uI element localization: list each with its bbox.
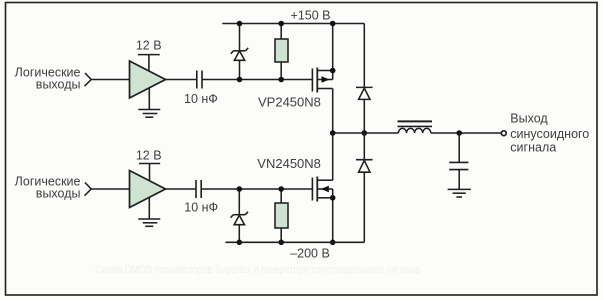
svg-text:VN2450N8: VN2450N8 <box>257 156 321 171</box>
node dot Q1 source/body <box>330 68 336 74</box>
svg-text:10 нФ: 10 нФ <box>184 92 218 106</box>
resistor R2 <box>275 189 288 242</box>
wire U1 output to C1 <box>166 79 197 81</box>
node dot D1 top <box>237 21 243 27</box>
input arrow IN2 <box>85 183 92 196</box>
zener D1 <box>231 24 248 80</box>
svg-text:+150 В: +150 В <box>291 8 331 22</box>
svg-text:Схема DMOS транзисторов Supert: Схема DMOS транзисторов Supertex в генер… <box>95 264 421 276</box>
node IN2 label <box>15 175 81 201</box>
capacitor C1 <box>197 71 202 89</box>
node IN1 label <box>15 66 81 92</box>
inductor L1 <box>398 121 433 133</box>
diode D4 <box>356 133 373 242</box>
wire supply to U1 <box>148 55 150 72</box>
node dot Q2 rail <box>330 240 336 246</box>
wire C2 to gate of Q2 <box>201 188 312 190</box>
svg-text:Выход: Выход <box>510 112 548 126</box>
supply bar U1 <box>138 54 160 56</box>
svg-text:12 В: 12 В <box>136 39 162 53</box>
diode D3 <box>356 87 373 133</box>
zener D2 <box>231 189 248 242</box>
wire U2 output to C2 <box>166 188 197 190</box>
wire rail corner to D3 <box>363 24 365 88</box>
node dot Q2 source/body <box>330 195 336 201</box>
ground (C3) <box>448 189 471 197</box>
svg-text:10 нФ: 10 нФ <box>184 201 218 215</box>
node dot R1 bottom <box>278 77 284 83</box>
node dot C3 junction <box>456 130 462 136</box>
capacitor C3 <box>449 133 468 189</box>
wire IN2 to buffer U2 <box>92 188 130 190</box>
buffer U2 <box>130 171 166 208</box>
wire Q2 drain to output node <box>332 133 334 180</box>
svg-text:сигнала: сигнала <box>510 141 556 155</box>
transistor Q1 (P-MOSFET) <box>312 68 332 93</box>
wire L1 to output terminal <box>431 132 502 134</box>
svg-text:12 В: 12 В <box>136 148 162 162</box>
node dot D1 bottom <box>237 77 243 83</box>
wire U2 to ground <box>148 197 150 219</box>
svg-text:выходы: выходы <box>36 78 81 92</box>
buffer U1 <box>130 61 166 98</box>
wire Q2 source to rail <box>332 189 334 242</box>
svg-text:VP2450N8: VP2450N8 <box>258 95 321 110</box>
node dot D3/D4 <box>362 130 368 136</box>
transistor Q2 (N-MOSFET) <box>312 177 332 202</box>
supply bar U2 <box>139 163 160 165</box>
output terminal <box>501 131 506 136</box>
wire supply to U2 <box>149 164 151 182</box>
node OUT label <box>510 112 589 155</box>
capacitor C2 <box>196 180 201 198</box>
ground (U2) <box>138 219 160 226</box>
+150 V rail <box>222 23 364 25</box>
node dot D2 bottom <box>237 240 243 246</box>
resistor R1 <box>275 24 288 80</box>
node dot Q1 rail <box>330 21 336 27</box>
wire C1 to gate of Q1 <box>202 79 312 81</box>
node dot output junction <box>330 130 336 136</box>
node dot R2 bottom <box>278 240 284 246</box>
svg-text:синусоидного: синусоидного <box>510 127 589 141</box>
wire output node to L1 <box>333 132 399 134</box>
input arrow IN1 <box>85 73 92 86</box>
svg-text:–200 В: –200 В <box>290 247 330 261</box>
node dot R2 top <box>278 186 284 192</box>
wire Q1 drain to output node <box>332 89 334 134</box>
svg-text:выходы: выходы <box>36 187 81 201</box>
wire IN1 to buffer U1 <box>92 79 130 81</box>
ground (U1) <box>138 110 160 118</box>
node dot D2 top <box>237 186 243 192</box>
wire U1 to ground <box>148 88 150 110</box>
node dot R1 top <box>278 21 284 27</box>
-200 V rail <box>226 241 365 243</box>
wire Q1 source to rail <box>332 24 334 80</box>
